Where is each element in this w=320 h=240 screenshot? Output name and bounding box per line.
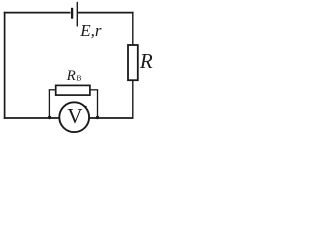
rheostat Rv body: [56, 85, 90, 95]
battery E,r long plate (positive): [76, 2, 78, 27]
wire stub right of Rv: [90, 89, 98, 91]
wire parallel branch left vertical: [48, 90, 50, 118]
wire right vertical upper: [132, 12, 134, 46]
wire top-right segment: [78, 12, 134, 14]
voltmeter terminal speck: [85, 106, 87, 108]
svg-text:V: V: [67, 104, 82, 128]
wire parallel branch right vertical: [97, 90, 99, 118]
junction dot right: [96, 116, 99, 119]
battery E,r short plate (negative): [71, 8, 73, 19]
svg-text:R: R: [66, 68, 76, 84]
resistor R: [128, 45, 138, 80]
voltmeter V: [59, 102, 89, 132]
wire right vertical lower: [132, 80, 134, 119]
wire bottom-left segment: [4, 117, 59, 119]
wire bottom-right segment: [89, 117, 133, 119]
junction dot left: [48, 116, 51, 119]
svg-text:B: B: [76, 74, 81, 83]
wire stub left of Rv: [49, 89, 56, 91]
wire top-left segment: [4, 12, 71, 14]
wire left vertical: [4, 12, 6, 119]
svg-text:R: R: [139, 49, 153, 73]
svg-text:E,r: E,r: [79, 21, 102, 40]
